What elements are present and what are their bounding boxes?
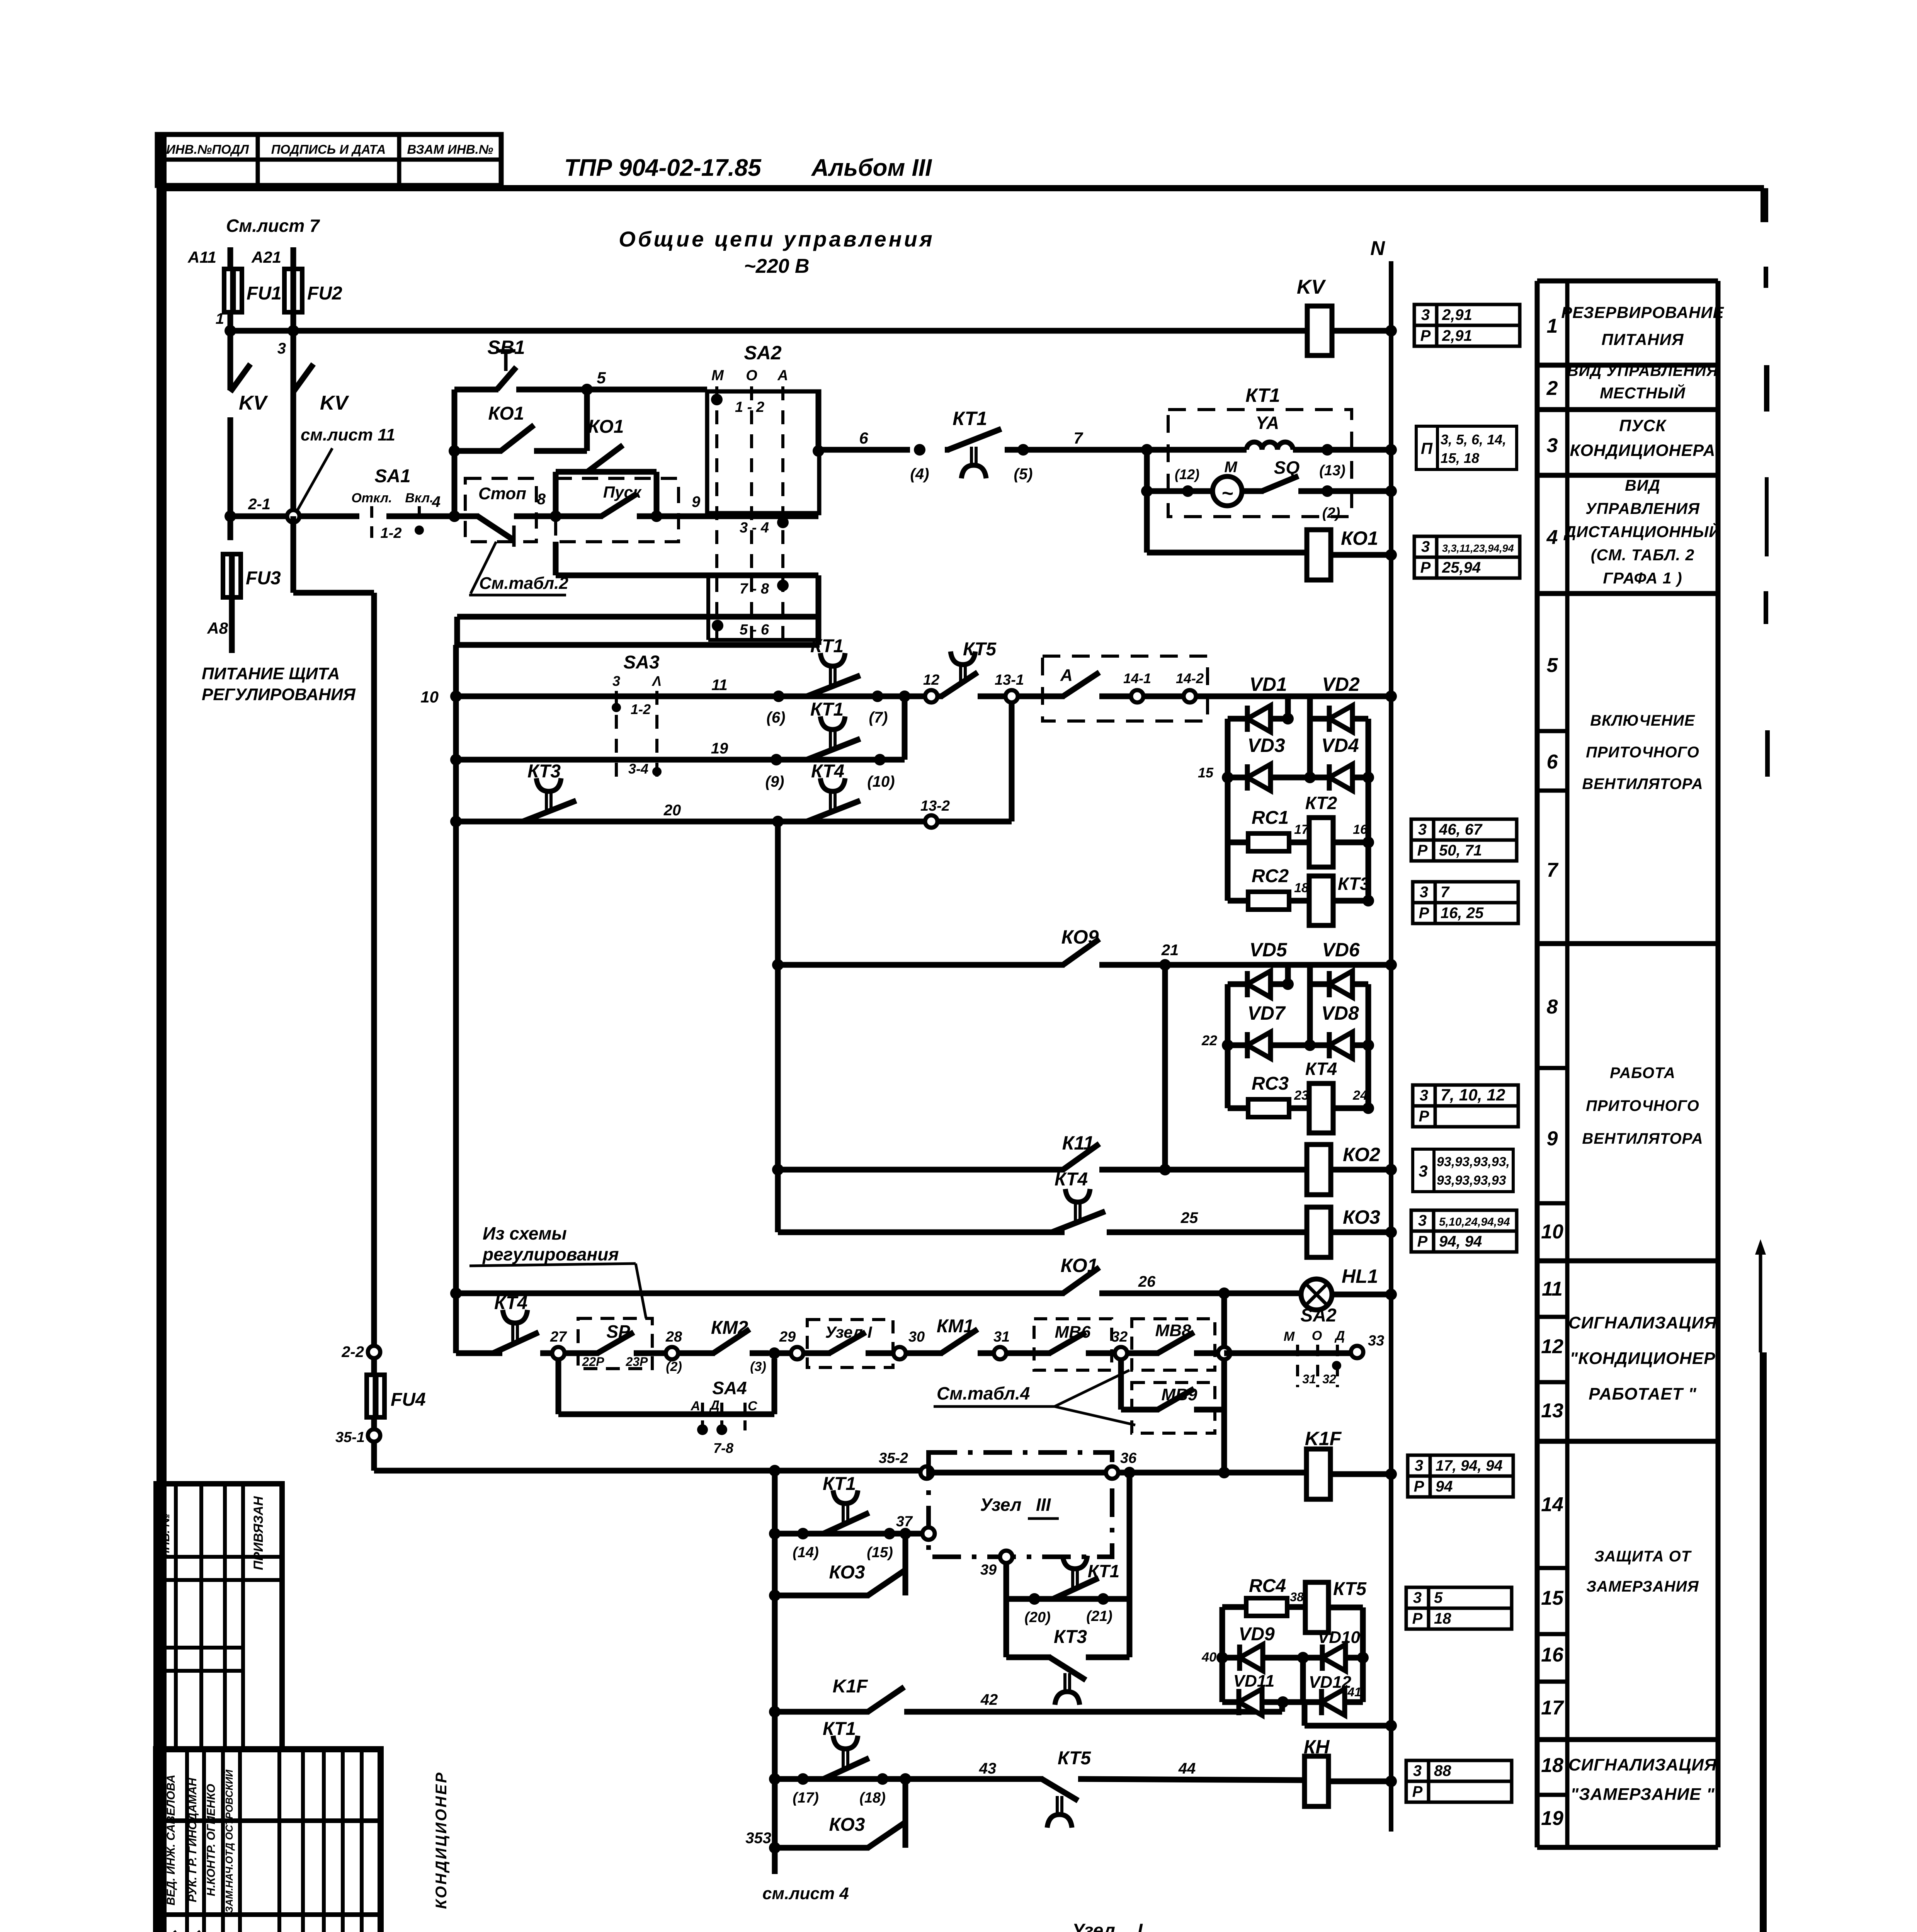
- svg-text:ДИСТАНЦИОННЫЙ: ДИСТАНЦИОННЫЙ: [1563, 522, 1721, 541]
- contactor A box: [1043, 656, 1208, 721]
- svg-text:7: 7: [1073, 429, 1083, 447]
- timed contact KT4 line27: [490, 1350, 495, 1356]
- svg-text:(9): (9): [765, 773, 784, 790]
- junction N row2: [1385, 485, 1397, 497]
- row VD7-VD8: [1228, 1043, 1247, 1048]
- svg-text:КТ4: КТ4: [811, 761, 844, 782]
- node 37: [922, 1527, 935, 1540]
- node (9): [771, 754, 782, 765]
- svg-text:К11: К11: [1062, 1132, 1094, 1154]
- svg-text:94: 94: [1436, 1478, 1453, 1495]
- svg-text:22Р: 22Р: [582, 1355, 605, 1369]
- svg-text:(СМ. ТАБЛ. 2: (СМ. ТАБЛ. 2: [1591, 546, 1695, 564]
- svg-text:3-4: 3-4: [628, 761, 648, 777]
- svg-text:ЗАЩИТА ОТ: ЗАЩИТА ОТ: [1594, 1548, 1692, 1565]
- svg-text:(21): (21): [1086, 1608, 1112, 1624]
- svg-text:353: 353: [745, 1830, 771, 1847]
- node (2): [1322, 485, 1333, 497]
- function table (right): [1537, 279, 1718, 284]
- svg-text:КТ5: КТ5: [1333, 1579, 1367, 1599]
- timed contact KT1 line6: [945, 447, 949, 453]
- svg-text:КМ2: КМ2: [711, 1318, 748, 1338]
- svg-text:RC4: RC4: [1249, 1576, 1286, 1596]
- fan contact MV8 box: [1132, 1319, 1215, 1370]
- svg-text:3: 3: [1413, 1589, 1422, 1606]
- svg-text:FU4: FU4: [391, 1389, 426, 1410]
- svg-text:3: 3: [1413, 1762, 1422, 1779]
- svg-text:См.лист 7: См.лист 7: [226, 216, 320, 236]
- row VD5-VD6: [1228, 981, 1247, 987]
- svg-text:КТ1: КТ1: [810, 636, 844, 656]
- svg-text:ГРАФА 1 ): ГРАФА 1 ): [1603, 569, 1682, 587]
- svg-text:ВЕНТИЛЯТОРА: ВЕНТИЛЯТОРА: [1582, 776, 1703, 793]
- svg-text:44: 44: [1178, 1760, 1196, 1777]
- riser 21: [1162, 965, 1168, 1170]
- svg-text:КТ5: КТ5: [963, 639, 997, 660]
- SA2 column A: [781, 386, 784, 641]
- svg-text:46, 67: 46, 67: [1439, 821, 1483, 838]
- svg-text:2: 2: [1546, 377, 1558, 400]
- svg-text:КТ1: КТ1: [953, 408, 987, 429]
- wire MV9: [1118, 1359, 1124, 1410]
- ref box KT2: [1411, 819, 1434, 840]
- button Pusk box: [556, 478, 679, 542]
- ref box KH: [1406, 1760, 1429, 1781]
- contact Uzel I: [803, 1350, 831, 1356]
- svg-text:Откл.: Откл.: [351, 491, 392, 505]
- timed contact KT5 line12: [937, 694, 943, 699]
- svg-text:13: 13: [1541, 1400, 1563, 1422]
- switch SA4: [556, 1359, 561, 1414]
- relay KT1 coil box: [1168, 410, 1352, 517]
- wire M SQ row: [1144, 450, 1150, 491]
- wire K11: [772, 1164, 784, 1175]
- KO1 seal-in branch: [553, 472, 559, 516]
- wire 26: [450, 1287, 462, 1299]
- svg-text:30: 30: [908, 1329, 925, 1345]
- svg-text:III: III: [1036, 1495, 1051, 1515]
- contact KO3 bypass: [769, 1590, 781, 1601]
- wire to diode network: [1195, 694, 1391, 699]
- svg-text:VD1: VD1: [1249, 673, 1287, 695]
- title stamp: [156, 1749, 381, 1932]
- svg-text:РАБОТА: РАБОТА: [1610, 1065, 1675, 1082]
- svg-text:КО2: КО2: [1343, 1144, 1380, 1165]
- ref box KO2: [1413, 1149, 1434, 1192]
- svg-text:Д: Д: [1334, 1328, 1345, 1343]
- node 36 wire: [932, 1470, 1107, 1476]
- svg-text:6: 6: [1547, 751, 1558, 773]
- timed contact KT1 line43: [820, 1776, 825, 1782]
- left edge: [1225, 719, 1231, 901]
- node 35-2: [920, 1466, 933, 1479]
- svg-text:МЕСТНЫЙ: МЕСТНЫЙ: [1600, 384, 1686, 402]
- svg-text:39: 39: [980, 1562, 997, 1578]
- timed contact KT1 line11: [804, 694, 808, 699]
- svg-text:ВИД УПРАВЛЕНИЯ: ВИД УПРАВЛЕНИЯ: [1567, 362, 1718, 379]
- svg-text:43: 43: [979, 1760, 997, 1777]
- svg-text:2-1: 2-1: [248, 496, 270, 513]
- svg-text:(2): (2): [666, 1359, 682, 1374]
- svg-text:FU2: FU2: [307, 283, 342, 304]
- svg-text:31: 31: [993, 1329, 1010, 1345]
- svg-text:ПИТАНИЕ ЩИТА: ПИТАНИЕ ЩИТА: [202, 664, 340, 683]
- wire 36 row: [769, 1465, 781, 1476]
- wire A21: [291, 247, 296, 270]
- svg-text:12: 12: [923, 672, 939, 688]
- svg-text:см.лист 4: см.лист 4: [762, 1884, 849, 1903]
- svg-text:КТ1: КТ1: [823, 1719, 856, 1739]
- svg-text:3, 5, 6, 14,: 3, 5, 6, 14,: [1441, 432, 1506, 447]
- feeder 2-2 jog: [291, 516, 296, 593]
- svg-text:K1F: K1F: [1305, 1428, 1342, 1449]
- svg-text:ИНВ.№ПОДЛ: ИНВ.№ПОДЛ: [166, 142, 249, 156]
- junction wire20: [772, 816, 784, 827]
- svg-text:16: 16: [1541, 1644, 1564, 1666]
- svg-text:(13): (13): [1319, 463, 1345, 479]
- svg-text:31: 31: [1302, 1372, 1316, 1386]
- svg-text:КОНДИЦИОНЕР: КОНДИЦИОНЕР: [433, 1771, 450, 1909]
- node (4): [914, 444, 925, 456]
- svg-text:RC3: RC3: [1252, 1073, 1289, 1094]
- svg-text:VD2: VD2: [1322, 673, 1359, 695]
- svg-text:(4): (4): [910, 466, 929, 483]
- ref box KO1: [1414, 536, 1437, 557]
- svg-text:5,10,24,94,94: 5,10,24,94,94: [1439, 1216, 1510, 1228]
- contact KO1 bypass: [449, 445, 460, 457]
- svg-text:8: 8: [1547, 996, 1558, 1018]
- node I box: [807, 1320, 893, 1367]
- svg-text:КТ4: КТ4: [494, 1293, 527, 1313]
- contact MV8: [1126, 1350, 1159, 1356]
- node III box: [929, 1452, 1112, 1557]
- svg-text:35-1: 35-1: [335, 1429, 365, 1446]
- svg-text:~: ~: [1221, 482, 1233, 505]
- ref box K1F: [1408, 1455, 1430, 1476]
- node 2-2: [368, 1346, 380, 1358]
- svg-text:41: 41: [1347, 1685, 1361, 1699]
- svg-text:Р: Р: [1419, 1108, 1429, 1125]
- relay coil КТ2: [1309, 818, 1333, 867]
- node (6): [773, 690, 784, 702]
- svg-text:КТ3: КТ3: [1338, 874, 1370, 894]
- relay coil KT5: [1305, 1582, 1328, 1633]
- svg-text:3: 3: [1421, 306, 1430, 323]
- svg-text:Р: Р: [1417, 842, 1428, 859]
- svg-text:VD3: VD3: [1247, 735, 1285, 756]
- svg-text:Стоп: Стоп: [478, 484, 526, 503]
- svg-text:40: 40: [1201, 1650, 1216, 1665]
- svg-text:15, 18: 15, 18: [1441, 450, 1479, 466]
- svg-text:9: 9: [1547, 1128, 1558, 1150]
- KO1 coil feed: [1144, 491, 1150, 553]
- svg-text:Пуск: Пуск: [603, 483, 642, 501]
- SA2 right edge riser: [816, 391, 822, 451]
- Pusk riser to row 7-8: [553, 542, 559, 575]
- contact KV left: [228, 331, 233, 390]
- svg-text:С: С: [748, 1399, 757, 1413]
- wire 9 to SA2: [657, 514, 818, 519]
- svg-text:РАБОТАЕТ ": РАБОТАЕТ ": [1589, 1384, 1697, 1403]
- svg-text:Узел: Узел: [1072, 1920, 1115, 1932]
- svg-text:29: 29: [779, 1329, 796, 1345]
- svg-text:Д: Д: [709, 1398, 720, 1413]
- svg-text:(10): (10): [867, 773, 895, 790]
- svg-text:VD6: VD6: [1322, 939, 1360, 961]
- svg-text:19: 19: [711, 740, 728, 757]
- svg-text:Альбом III: Альбом III: [811, 155, 932, 181]
- node (13): [1322, 444, 1333, 456]
- relay coil K1F: [1306, 1449, 1330, 1499]
- svg-text:3 - 4: 3 - 4: [740, 520, 769, 536]
- svg-text:88: 88: [1434, 1762, 1451, 1779]
- svg-text:3,3,11,23,94,94: 3,3,11,23,94,94: [1442, 543, 1514, 554]
- svg-text:СИГНАЛИЗАЦИЯ: СИГНАЛИЗАЦИЯ: [1568, 1755, 1717, 1774]
- svg-text:Р: Р: [1412, 1610, 1423, 1627]
- svg-text:5: 5: [597, 369, 606, 387]
- svg-text:3: 3: [277, 340, 286, 357]
- svg-text:КТ3: КТ3: [1054, 1627, 1087, 1647]
- svg-text:1: 1: [216, 310, 224, 327]
- wire 2-1: [230, 514, 287, 519]
- svg-text:18: 18: [1434, 1610, 1451, 1627]
- right edge VD9 block: [1360, 1607, 1366, 1702]
- svg-text:Р: Р: [1412, 1783, 1423, 1800]
- svg-text:Р: Р: [1419, 905, 1429, 922]
- svg-text:Λ: Λ: [651, 673, 662, 689]
- svg-text:М: М: [711, 367, 724, 384]
- svg-text:10: 10: [1541, 1221, 1563, 1243]
- relay coil KV: [1307, 306, 1332, 355]
- node (7): [872, 690, 883, 702]
- fuse FU2: [284, 269, 302, 312]
- svg-text:3: 3: [1421, 538, 1430, 555]
- stamp signatures: [167, 1931, 180, 1932]
- svg-text:15: 15: [1541, 1587, 1564, 1609]
- svg-text:K1F: K1F: [833, 1676, 868, 1697]
- svg-text:регулирования: регулирования: [482, 1244, 619, 1264]
- svg-text:М: М: [1284, 1329, 1295, 1344]
- junction 11-19: [899, 690, 910, 702]
- svg-text:93,93,93,93: 93,93,93,93: [1437, 1173, 1506, 1188]
- svg-text:Р: Р: [1417, 1233, 1428, 1250]
- svg-text:4: 4: [432, 493, 441, 510]
- riser 36 down: [1127, 1473, 1133, 1657]
- node 12: [910, 694, 926, 699]
- svg-text:24: 24: [1352, 1088, 1368, 1103]
- wire 42: [904, 1709, 1282, 1715]
- svg-text:14-2: 14-2: [1176, 670, 1204, 686]
- svg-text:КТ1: КТ1: [823, 1474, 856, 1494]
- lamp HL1: [1301, 1279, 1332, 1310]
- svg-text:О: О: [746, 367, 757, 384]
- wire 7: [1005, 447, 1247, 453]
- svg-text:3: 3: [1420, 884, 1428, 901]
- right edge: [1366, 719, 1371, 901]
- svg-text:3: 3: [612, 673, 620, 689]
- node 39: [1000, 1551, 1012, 1563]
- svg-text:КТ5: КТ5: [1058, 1748, 1091, 1769]
- svg-text:РЕЗЕРВИРОВАНИЕ: РЕЗЕРВИРОВАНИЕ: [1561, 303, 1724, 321]
- node on riser: [1218, 1347, 1230, 1359]
- contact A: [1017, 694, 1065, 699]
- contact KV right: [291, 417, 296, 516]
- svg-text:VD9: VD9: [1238, 1624, 1275, 1645]
- svg-text:32: 32: [1111, 1329, 1128, 1345]
- left bus corner: [454, 617, 460, 645]
- relay coil KO3: [1307, 1207, 1331, 1257]
- svg-text:КО1: КО1: [1341, 527, 1378, 549]
- jog to VD block: [1279, 1702, 1285, 1712]
- svg-text:2,91: 2,91: [1442, 327, 1472, 344]
- timed contact KT1 line39: [1050, 1596, 1055, 1602]
- node 14-2: [1143, 694, 1184, 699]
- svg-text:ВЕД. ИНЖ. САВЕЛОВА: ВЕД. ИНЖ. САВЕЛОВА: [165, 1775, 177, 1906]
- svg-text:RC1: RC1: [1252, 808, 1289, 828]
- left edge VD9 block: [1220, 1607, 1225, 1702]
- svg-text:1-2: 1-2: [381, 525, 402, 541]
- button Stop box: [465, 478, 536, 542]
- contact K11: [1063, 1144, 1099, 1170]
- svg-text:3: 3: [1418, 1212, 1427, 1229]
- wire 1 bus: [230, 328, 1307, 334]
- svg-text:ЗАМЕРЗАНИЯ: ЗАМЕРЗАНИЯ: [1586, 1578, 1699, 1595]
- svg-text:23: 23: [1294, 1088, 1309, 1103]
- contact KO1 line26: [1063, 1267, 1099, 1293]
- svg-text:18: 18: [1294, 881, 1309, 895]
- svg-text:32: 32: [1322, 1372, 1336, 1386]
- svg-text:15: 15: [1198, 765, 1214, 781]
- contact KO9: [1063, 939, 1099, 965]
- branch right: [1307, 965, 1313, 1045]
- svg-text:14: 14: [1541, 1493, 1563, 1516]
- wire A11: [228, 247, 233, 270]
- motor M: [1213, 476, 1242, 506]
- svg-text:(6): (6): [767, 709, 786, 726]
- timed contact KT1 line37: [820, 1531, 825, 1537]
- node 31: [994, 1347, 1006, 1359]
- svg-text:КО3: КО3: [1343, 1206, 1380, 1228]
- wire 5: [516, 387, 707, 393]
- svg-text:3: 3: [1547, 434, 1558, 457]
- timed contact KT4 line25: [1049, 1230, 1053, 1235]
- relay coil KH: [1305, 1756, 1328, 1806]
- svg-text:33: 33: [1368, 1333, 1384, 1349]
- riser node4 to SB1: [452, 389, 458, 516]
- svg-text:9: 9: [692, 493, 701, 510]
- svg-text:О: О: [1312, 1328, 1322, 1343]
- riser 13-2 to 13-1: [937, 819, 1012, 825]
- svg-text:19: 19: [1541, 1807, 1563, 1830]
- contact KO3 line353: [775, 1845, 869, 1851]
- fan contact MV9 box: [1132, 1383, 1215, 1433]
- svg-text:КН: КН: [1304, 1736, 1330, 1758]
- fan contact MV6 box: [1034, 1319, 1112, 1370]
- wire to node 4: [386, 514, 454, 519]
- node 14-1: [1131, 690, 1143, 702]
- svg-text:18: 18: [1541, 1754, 1563, 1777]
- registration table: [156, 1484, 282, 1749]
- svg-text:ПИТАНИЯ: ПИТАНИЯ: [1602, 330, 1684, 349]
- mid branch: [1300, 1658, 1306, 1702]
- wire 20: [450, 816, 462, 827]
- svg-text:ТПР 904-02-17.85: ТПР 904-02-17.85: [564, 155, 762, 181]
- svg-text:RC2: RC2: [1252, 866, 1289, 886]
- wire 25: [778, 1230, 1065, 1235]
- bus N: [1389, 261, 1393, 1832]
- svg-text:КТ2: КТ2: [1305, 793, 1337, 813]
- svg-text:"КОНДИЦИОНЕР: "КОНДИЦИОНЕР: [1570, 1349, 1715, 1368]
- svg-text:А8: А8: [207, 619, 228, 637]
- junction riser: [1218, 1467, 1230, 1478]
- fuse FU1: [224, 269, 242, 312]
- ref box KO3: [1411, 1210, 1434, 1231]
- svg-text:КТ1: КТ1: [1088, 1561, 1120, 1581]
- svg-text:38: 38: [1290, 1590, 1304, 1604]
- note table 2: [471, 542, 496, 594]
- node 32: [1115, 1347, 1127, 1359]
- svg-text:7, 10, 12: 7, 10, 12: [1441, 1086, 1505, 1104]
- svg-text:"ЗАМЕРЗАНИЕ ": "ЗАМЕРЗАНИЕ ": [1570, 1785, 1715, 1804]
- ref box P: [1416, 426, 1437, 469]
- svg-text:Общие цепи управления: Общие цепи управления: [619, 227, 934, 251]
- svg-text:42: 42: [980, 1691, 998, 1708]
- node 35-1: [371, 1418, 377, 1430]
- contact Stop: [454, 514, 479, 519]
- svg-text:(14): (14): [793, 1544, 819, 1561]
- svg-text:ВЕНТИЛЯТОРА: ВЕНТИЛЯТОРА: [1582, 1130, 1703, 1147]
- svg-text:VD10: VD10: [1318, 1628, 1361, 1647]
- wire to node 1: [228, 312, 233, 331]
- wire 43 44 row: [769, 1773, 781, 1785]
- branch left: [1285, 696, 1291, 719]
- ref box KT5: [1406, 1587, 1429, 1608]
- svg-text:FU3: FU3: [246, 568, 281, 588]
- contact KM1: [905, 1350, 943, 1356]
- svg-text:N: N: [1370, 237, 1385, 260]
- svg-text:50, 71: 50, 71: [1439, 842, 1482, 859]
- svg-text:КО9: КО9: [1061, 926, 1099, 948]
- svg-text:(12): (12): [1175, 466, 1199, 482]
- junction 26: [1218, 1287, 1230, 1299]
- svg-text:7: 7: [1547, 859, 1559, 881]
- svg-text:КО1: КО1: [588, 417, 624, 437]
- timed contact KT3 bypass: [1006, 1655, 1051, 1660]
- wire 33: [1224, 1350, 1352, 1356]
- svg-text:23Р: 23Р: [626, 1355, 648, 1369]
- svg-text:14-1: 14-1: [1123, 670, 1151, 686]
- timed contact KT1 line19: [804, 757, 808, 763]
- wire 3 drop: [291, 312, 296, 516]
- svg-text:КО1: КО1: [1061, 1255, 1098, 1276]
- svg-text:КТ1: КТ1: [810, 699, 844, 720]
- junction N wire21: [1385, 959, 1397, 971]
- svg-text:ПОДПИСЬ И ДАТА: ПОДПИСЬ И ДАТА: [271, 142, 386, 156]
- svg-text:(2): (2): [1322, 505, 1340, 521]
- row VD3-VD4: [1228, 775, 1247, 781]
- branch right: [1307, 696, 1313, 777]
- left bus of interlock box: [453, 645, 459, 1353]
- svg-text:11: 11: [711, 677, 728, 694]
- svg-text:Р: Р: [1420, 327, 1431, 344]
- svg-text:13-1: 13-1: [995, 672, 1024, 688]
- svg-text:7-8: 7-8: [713, 1440, 733, 1456]
- svg-text:1-2: 1-2: [631, 701, 651, 717]
- junction: [581, 384, 593, 395]
- svg-text:2-2: 2-2: [341, 1344, 364, 1361]
- timed contact KT4 line20: [804, 819, 808, 825]
- contact KM2: [677, 1350, 715, 1356]
